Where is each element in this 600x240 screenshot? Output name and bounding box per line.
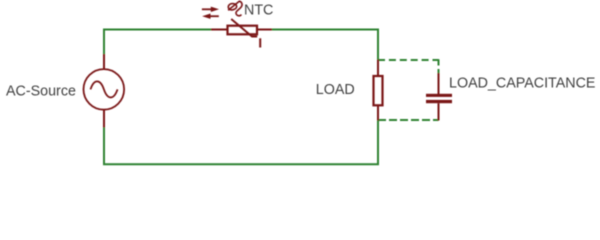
capacitor top plate bbox=[426, 94, 452, 97]
wire dashed capacitor vertical stub bbox=[438, 59, 440, 74]
wire dashed top to capacitor bbox=[378, 59, 439, 61]
NTC current arrow right bbox=[202, 7, 219, 12]
wire right vertical upper bbox=[377, 29, 379, 61]
svg-text:LOAD_CAPACITANCE: LOAD_CAPACITANCE bbox=[449, 76, 595, 92]
wire left vertical lower bbox=[103, 127, 105, 165]
AC source V1 sine wave bbox=[91, 81, 118, 97]
NTC thermistor diagonal stroke with foot bbox=[231, 19, 257, 37]
wire dashed bottom to capacitor bbox=[378, 119, 439, 121]
wire top right horizontal bbox=[271, 29, 379, 31]
capacitor pin top bbox=[438, 73, 440, 94]
AC source V1 pin top bbox=[103, 54, 105, 69]
wire left vertical upper bbox=[103, 29, 105, 55]
capacitor bottom plate bbox=[426, 100, 452, 103]
wire bottom horizontal bbox=[103, 163, 379, 165]
NTC pin label I bbox=[259, 38, 261, 47]
AC source V1 circle bbox=[84, 69, 125, 110]
svg-text:AC-Source: AC-Source bbox=[6, 83, 76, 99]
svg-text:NTC: NTC bbox=[244, 2, 273, 18]
NTC thermistor body bbox=[228, 26, 258, 35]
LOAD resistor pin bottom bbox=[377, 105, 379, 121]
LOAD resistor body bbox=[374, 76, 383, 105]
NTC thermistor left pin bbox=[211, 29, 227, 31]
capacitor pin bottom bbox=[438, 103, 440, 120]
AC source V1 pin bottom bbox=[103, 110, 105, 128]
wire right vertical lower bbox=[377, 120, 379, 165]
wire top left horizontal bbox=[103, 29, 212, 31]
NTC thermistor right pin bbox=[257, 29, 272, 31]
NTC theta temperature symbol bbox=[228, 1, 242, 16]
NTC current arrow left bbox=[202, 14, 219, 19]
svg-text:LOAD: LOAD bbox=[316, 82, 355, 98]
LOAD resistor pin top bbox=[377, 60, 379, 77]
